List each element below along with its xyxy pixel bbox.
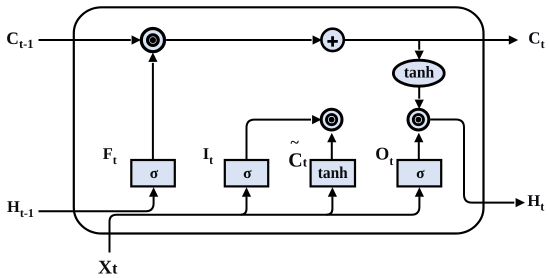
wire add to Ct output	[345, 39, 509, 41]
wire mult1 to add	[166, 39, 312, 41]
svg-text:Xt: Xt	[98, 258, 118, 278]
svg-text:σ: σ	[416, 165, 425, 182]
wire F-gate up to mult1	[152, 63, 154, 159]
svg-text:σ: σ	[150, 165, 159, 182]
mult1 circled-dot operator	[141, 28, 164, 51]
mult3 circled-dot operator	[321, 109, 342, 130]
mult2 circled-dot operator	[408, 109, 429, 130]
add circled-plus operator	[321, 29, 343, 51]
svg-text:tanh: tanh	[404, 63, 434, 82]
wire Ht-1 into F-gate arrow	[39, 197, 154, 212]
sigma box O	[398, 160, 442, 186]
wire tanh ellipse to mult2	[418, 87, 420, 98]
wire Xt bus	[110, 197, 420, 253]
tanh box	[311, 160, 355, 186]
svg-text:σ: σ	[243, 165, 252, 182]
wire tanh-box up to mult3	[331, 142, 333, 159]
wire bus branch up to tanh-box	[326, 197, 332, 215]
svg-text:tanh: tanh	[318, 163, 348, 182]
wire I-gate up-and-right to mult3	[247, 120, 312, 159]
wire branch down from C line to tanh ellipse	[418, 41, 420, 50]
cell boundary rounded rectangle	[74, 7, 484, 233]
wire Ct-1 to mult1	[39, 39, 131, 41]
sigma box F	[131, 160, 175, 186]
wire O-gate up to mult2	[418, 142, 420, 159]
wire mult2 output to Ht	[430, 120, 514, 203]
tanh ellipse	[393, 60, 444, 86]
sigma box I	[225, 160, 268, 186]
svg-text:~: ~	[291, 135, 300, 152]
label C-tilde-t	[288, 135, 307, 172]
wire bus branch up to I-gate	[241, 197, 247, 215]
